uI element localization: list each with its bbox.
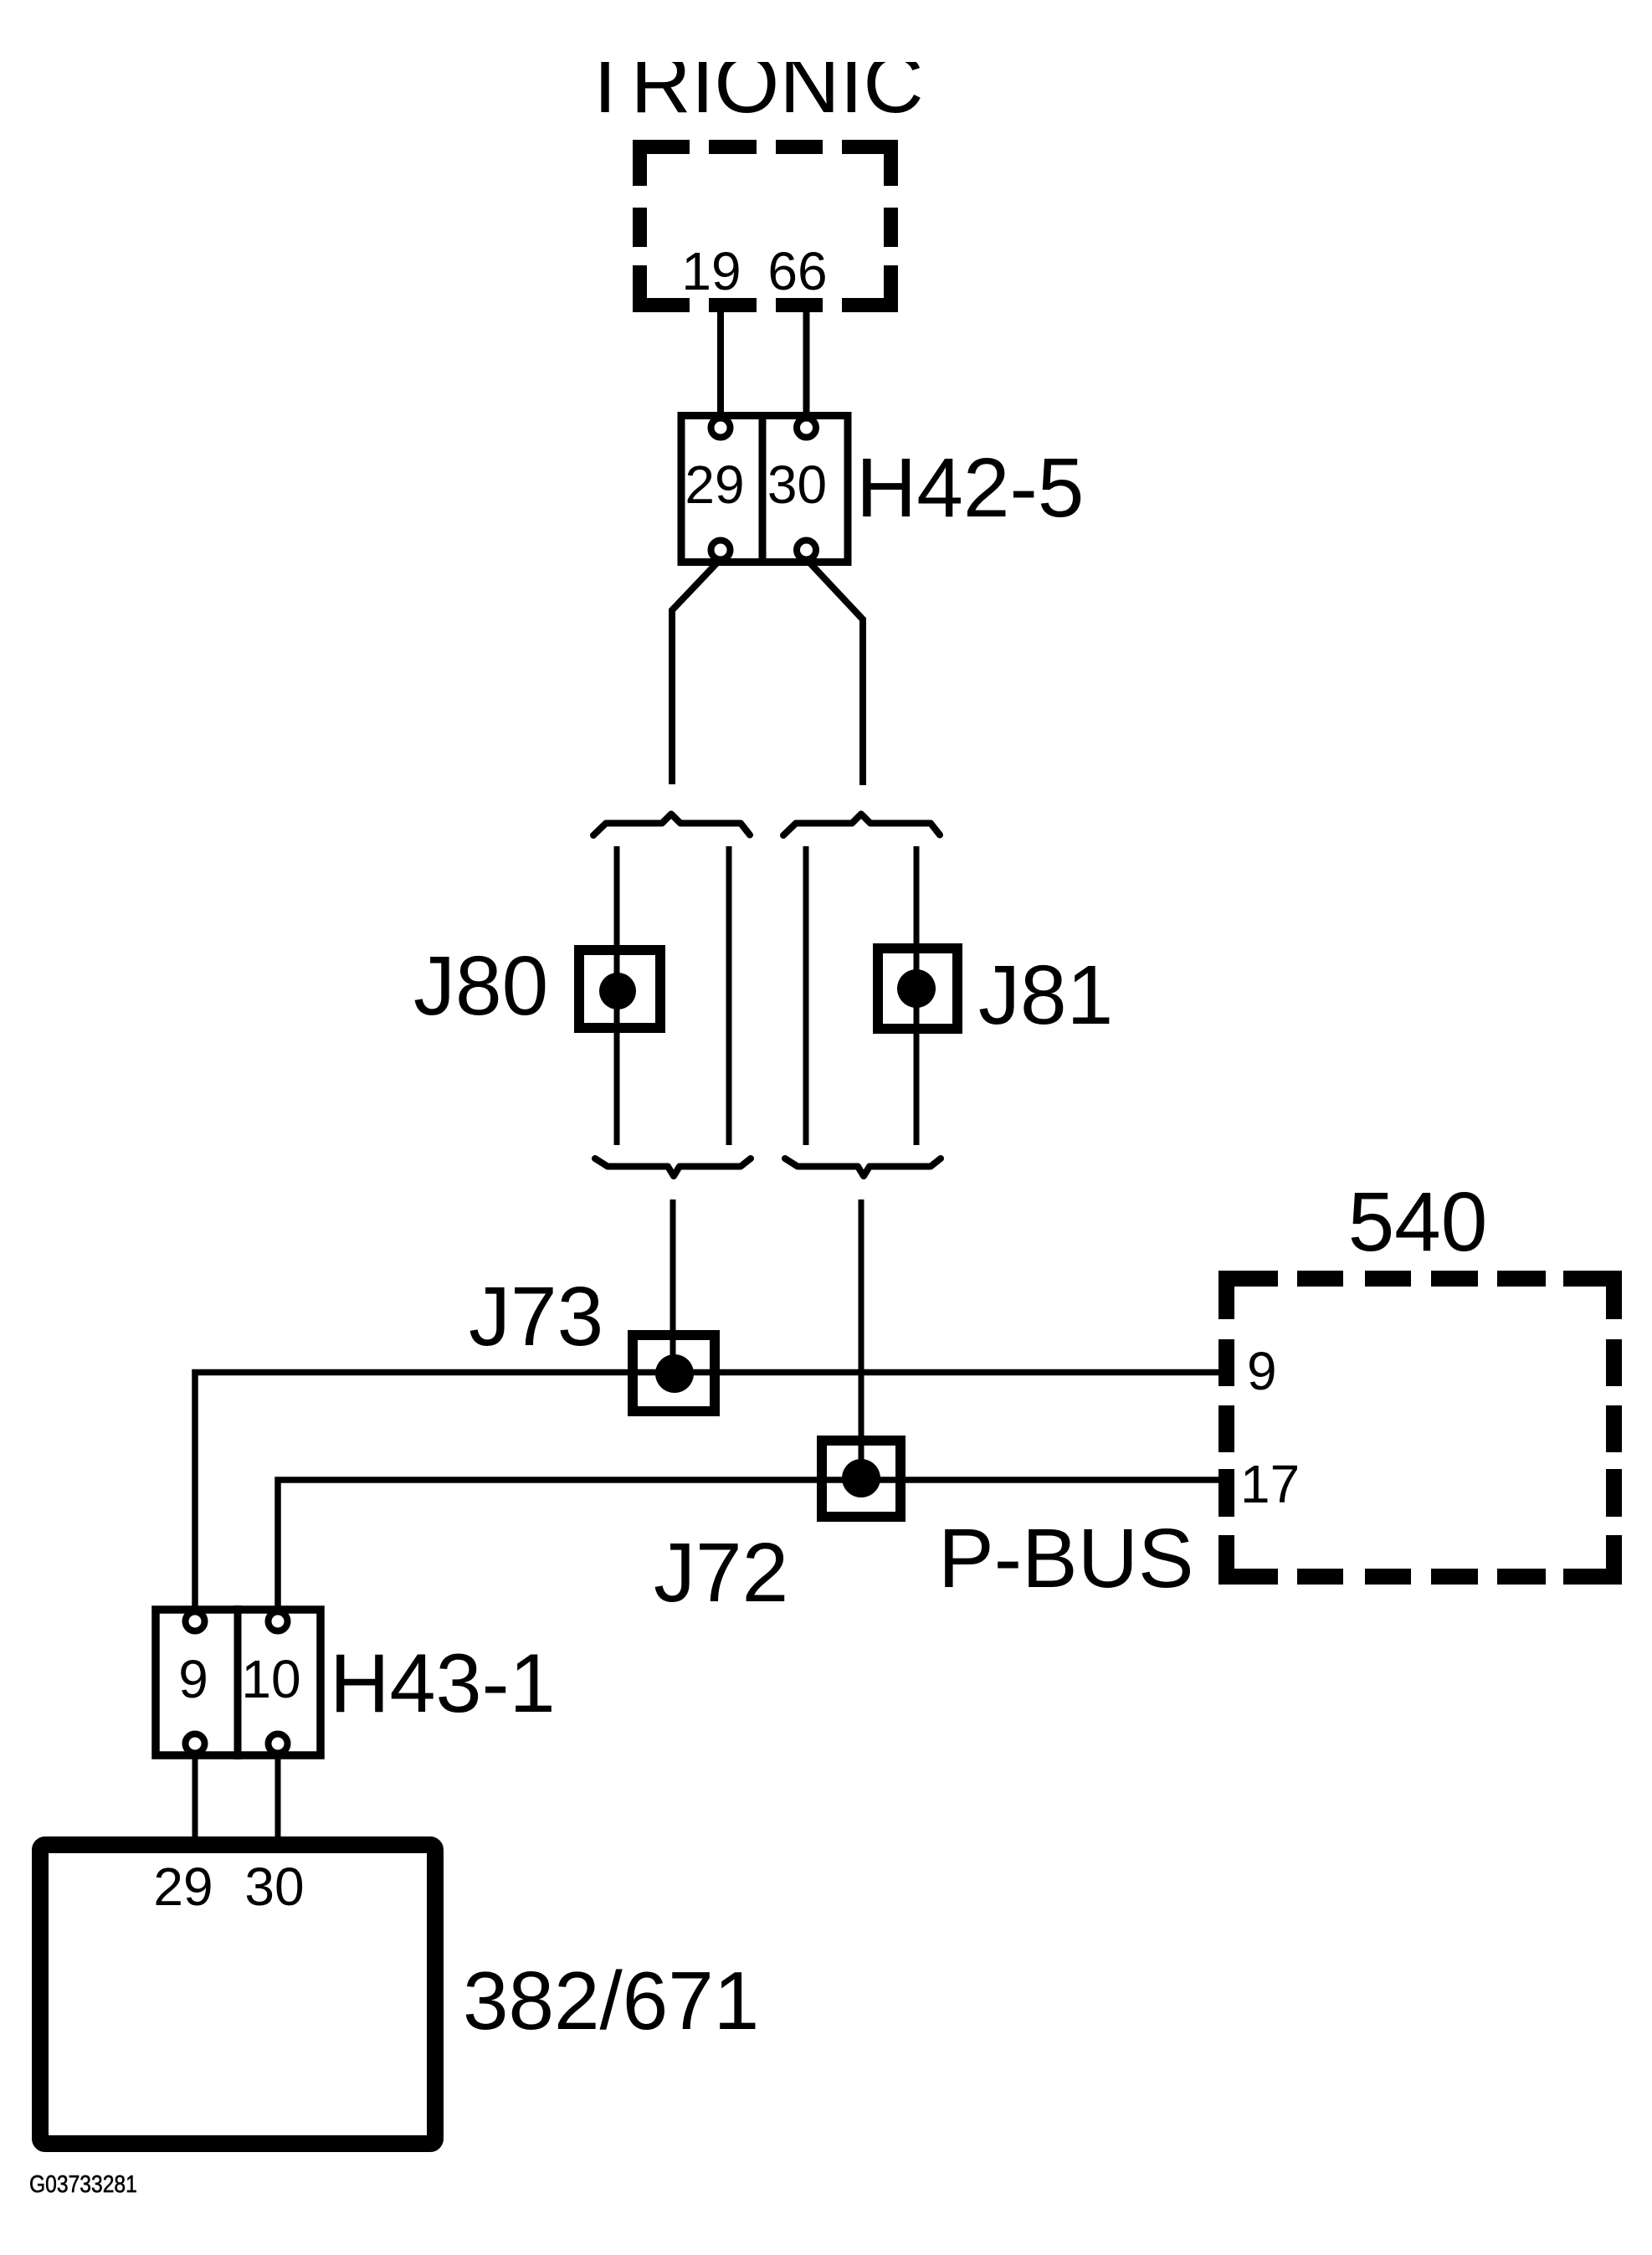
svg-text:30: 30 bbox=[767, 455, 827, 515]
wire 540 pin17 / J72 / H43-1 pin10 bbox=[278, 1480, 1218, 1611]
svg-text:19: 19 bbox=[681, 241, 741, 301]
svg-text:66: 66 bbox=[767, 241, 827, 301]
splice J72 dot bbox=[842, 1459, 880, 1497]
splice J81 dot bbox=[897, 969, 936, 1008]
splice J80 box bbox=[579, 950, 660, 1028]
H42-5 pin ring top-right bbox=[797, 419, 816, 438]
harness brace bottom right bbox=[785, 1158, 941, 1176]
harness brace top left bbox=[593, 814, 750, 836]
H43-1 pin ring bottom-right bbox=[269, 1734, 288, 1754]
svg-text:17: 17 bbox=[1240, 1454, 1300, 1514]
splice J73 dot bbox=[655, 1354, 694, 1393]
module 382/671 box bbox=[40, 1845, 435, 2144]
svg-text:J73: J73 bbox=[469, 1270, 603, 1364]
H43-1 pin ring bottom-left bbox=[186, 1734, 205, 1754]
svg-text:382/671: 382/671 bbox=[463, 1955, 759, 2047]
harness brace top right bbox=[783, 814, 940, 836]
splice J81 box bbox=[878, 948, 957, 1029]
svg-text:H43-1: H43-1 bbox=[330, 1636, 556, 1729]
svg-text:29: 29 bbox=[153, 1857, 213, 1917]
wire H43-1 pin9 to module 382/671 pin29 bbox=[192, 1753, 198, 1841]
wire H42-5 pin29 down to left bundle bbox=[672, 559, 721, 784]
svg-text:G03733281: G03733281 bbox=[29, 2170, 137, 2197]
splice J72 box bbox=[822, 1441, 900, 1517]
ECU TRIONIC dashed box bbox=[633, 140, 898, 312]
svg-text:H42-5: H42-5 bbox=[856, 441, 1084, 535]
H42-5 pin ring bottom-right bbox=[797, 541, 816, 560]
bundle wire right-2 (through J81) bbox=[914, 846, 920, 1145]
bundle wire left-2 bbox=[726, 846, 732, 1145]
wire H42-5 pin30 down to right bundle bbox=[807, 559, 864, 785]
svg-text:J72: J72 bbox=[654, 1526, 788, 1620]
H42-5 pin ring bottom-left bbox=[711, 541, 731, 560]
connector H42-5 divider bbox=[759, 412, 767, 566]
svg-text:30: 30 bbox=[244, 1857, 304, 1917]
svg-text:540: 540 bbox=[1348, 1175, 1488, 1269]
splice J73 box bbox=[633, 1335, 715, 1411]
module 540 dashed box bbox=[1218, 1271, 1622, 1585]
wire TRIONIC pin66 to H42-5 pin30 bbox=[803, 306, 810, 424]
ECU label TRIONIC (top clipped) bbox=[0, 0, 1652, 131]
svg-text:29: 29 bbox=[685, 455, 744, 515]
svg-text:9: 9 bbox=[178, 1649, 208, 1709]
H43-1 pin ring top-right bbox=[269, 1612, 288, 1631]
wire left bundle down to splice J73 bbox=[670, 1199, 676, 1373]
H42-5 pin ring top-left bbox=[711, 419, 731, 438]
wire TRIONIC pin19 to H42-5 pin29 bbox=[717, 306, 724, 424]
connector H43-1 divider bbox=[234, 1605, 242, 1759]
svg-text:J81: J81 bbox=[978, 948, 1113, 1042]
svg-text:P-BUS: P-BUS bbox=[938, 1512, 1194, 1605]
wire right bundle down to splice J72 bbox=[859, 1199, 864, 1478]
connector H43-1 box bbox=[156, 1610, 321, 1755]
wire H43-1 pin10 to module 382/671 pin30 bbox=[275, 1753, 281, 1841]
H43-1 pin ring top-left bbox=[186, 1612, 205, 1631]
connector H42-5 box bbox=[681, 416, 848, 562]
wire 540 pin9 / J73 / H43-1 pin9 bbox=[195, 1373, 1218, 1612]
bundle wire left-1 (through J80) bbox=[614, 846, 620, 1145]
svg-text:9: 9 bbox=[1247, 1341, 1277, 1401]
svg-text:10: 10 bbox=[241, 1649, 300, 1709]
splice J80 dot bbox=[599, 973, 636, 1009]
svg-text:J80: J80 bbox=[413, 939, 548, 1033]
harness brace bottom left bbox=[595, 1158, 751, 1176]
bundle wire right-1 bbox=[803, 846, 809, 1145]
